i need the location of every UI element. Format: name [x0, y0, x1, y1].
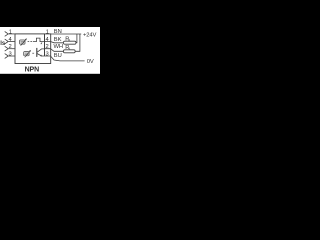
RL1 wire to +24V rail [76, 34, 77, 43]
WH wire [51, 49, 64, 52]
svg-text:ls: ls [0, 41, 6, 47]
pin 4 wire [8, 41, 14, 43]
output bus [44, 34, 46, 56]
transistor Q1 [36, 48, 38, 57]
pin stubs inside box [42, 42, 51, 57]
oscillator symbol upper [20, 40, 25, 44]
svg-text:1: 1 [9, 29, 12, 35]
svg-text:RL: RL [65, 45, 72, 51]
svg-text:2: 2 [9, 44, 12, 50]
svg-text:BK: BK [54, 37, 62, 43]
BK wire [51, 42, 64, 43]
svg-text:WH: WH [54, 44, 63, 50]
dashed link lower [32, 52, 34, 54]
svg-text:3: 3 [9, 51, 12, 57]
svg-text:1: 1 [46, 29, 49, 35]
pin 1 wire [8, 33, 14, 35]
emitter arrowhead Q1 [40, 55, 42, 57]
pin 4 chevron [5, 39, 9, 44]
svg-text:2: 2 [46, 44, 49, 50]
svg-text:3: 3 [46, 51, 49, 57]
load resistor RL1 [64, 41, 76, 44]
svg-text:RL: RL [65, 36, 72, 42]
svg-text:NPN: NPN [25, 66, 40, 73]
oscillator symbol lower [24, 52, 29, 56]
signal arrowhead [41, 43, 42, 45]
arrowhead lower oscillator [29, 50, 31, 52]
RL2 wire to +24V rail [75, 34, 80, 51]
BN wire to +24V [51, 33, 82, 35]
pin 3 wire [8, 55, 14, 57]
pin 2 chevron [5, 46, 9, 51]
pin 2 wire [8, 48, 14, 50]
dashed link upper [28, 41, 32, 43]
pin 1 chevron [5, 32, 9, 37]
pulse symbol [33, 38, 45, 42]
load resistor RL2 [64, 50, 76, 53]
svg-text:+24V: +24V [83, 32, 97, 38]
arrowhead upper oscillator [25, 38, 27, 40]
pin 3 chevron [5, 54, 9, 59]
svg-text:0V: 0V [87, 59, 94, 65]
BU wire to 0V [51, 56, 85, 61]
svg-text:BU: BU [54, 53, 62, 59]
svg-text:BN: BN [54, 29, 62, 35]
sensor box [15, 34, 51, 64]
white band [0, 27, 100, 74]
